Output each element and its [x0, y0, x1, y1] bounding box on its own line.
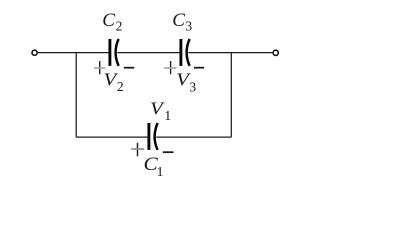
- svg-text:2: 2: [117, 79, 124, 94]
- svg-text:1: 1: [157, 165, 164, 180]
- svg-text:1: 1: [164, 109, 171, 124]
- svg-text:3: 3: [185, 19, 192, 34]
- svg-text:C: C: [172, 10, 185, 31]
- svg-text:2: 2: [116, 18, 123, 33]
- svg-text:V: V: [150, 99, 165, 119]
- svg-text:C: C: [102, 10, 115, 31]
- svg-text:3: 3: [189, 79, 196, 94]
